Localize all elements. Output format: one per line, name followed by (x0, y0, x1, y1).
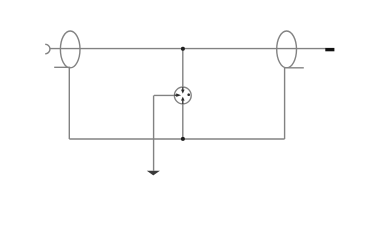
ground symbol (147, 171, 160, 176)
wire top bus (50, 48, 326, 50)
terminal right (output dash) (325, 48, 334, 51)
wire bottom bus (69, 138, 284, 140)
wire arrester bottom stem (182, 104, 184, 139)
wire arrester ground electrode lead (154, 94, 175, 96)
wire arrester top stem (182, 49, 184, 88)
junction node top (181, 47, 185, 51)
arrester F1 gas-fill dot (187, 93, 190, 96)
inductor L2 tap tick (285, 67, 304, 69)
terminal left (input socket arc) (45, 44, 50, 54)
inductor L2 winding (right ellipse) (277, 31, 297, 68)
arrester F1 top electrode arrow (181, 87, 185, 93)
wire right drop (284, 68, 286, 139)
wire left drop (68, 68, 70, 139)
arrester F1 side electrode arrow (175, 93, 182, 97)
arrester F1 bottom electrode arrow (181, 97, 185, 104)
inductor L1 tap tick (54, 66, 70, 68)
surge arrester F1 envelope (gas discharge tube circle) (174, 87, 191, 104)
wire ground stem (153, 95, 155, 170)
junction node bottom (181, 137, 185, 141)
inductor L1 winding (left ellipse) (60, 31, 80, 68)
